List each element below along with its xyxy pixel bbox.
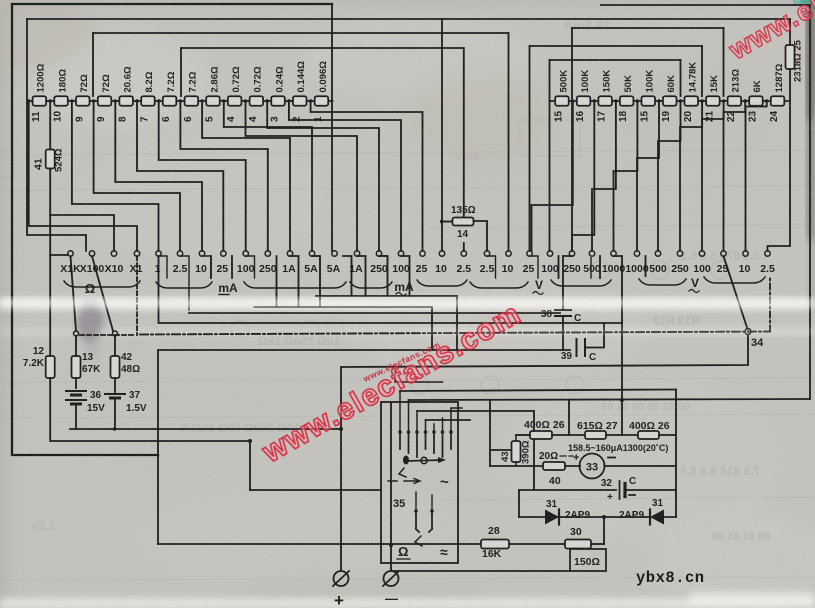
resistor R28 (16K) (481, 540, 509, 549)
junction on shunt chain (135, 99, 138, 102)
switch 35 contact dot (432, 430, 436, 434)
resistor R9 (72Ω) (76, 96, 90, 106)
switch contact X100 (89, 251, 94, 256)
switch contact 100 (547, 251, 552, 256)
wire bus A left down to contact 250V (571, 28, 573, 251)
wire T3 right end down to contact 10V (508, 33, 510, 251)
switch contact 500 (655, 251, 660, 256)
junction on shunt chain (244, 99, 247, 102)
wire contact-1 common bus to meter node (159, 256, 623, 323)
wire divider tap x=724 to contact u100 (702, 101, 724, 251)
wire lower prong riser 2 (431, 495, 433, 511)
wire shunt tap x=115 to contact c10 (115, 101, 202, 251)
switch contact 25 (221, 251, 226, 256)
wire bottom rail to R28 (158, 543, 481, 545)
wire R28 to R30 (509, 543, 565, 545)
capacitor C38 (555, 310, 571, 316)
wire shunt tap x=289 to contact m100 (289, 101, 401, 251)
wire X1K contact to left rail (50, 215, 68, 255)
wire battery 36 to bottom wire (75, 404, 77, 429)
wire bus C right down to chain (680, 60, 682, 96)
stub contact 10mA drop (210, 256, 212, 278)
resistor R18 (50K) (620, 96, 634, 106)
resistor R27 (615Ω) (585, 431, 606, 439)
wire minus jack to rheostat bottom (391, 570, 570, 572)
stub 100V drop (558, 256, 560, 278)
wire divider tap x=594 to contact v250 (572, 101, 594, 251)
rheostat box 150Ω (570, 549, 606, 571)
wire bus T4 (181, 47, 463, 49)
resistor R14 (135Ω) (453, 218, 474, 226)
wire meter feed vertical (489, 400, 491, 466)
diode D31a (2AP9) (545, 510, 559, 525)
wire battery bottom rail (70, 428, 341, 430)
wire R41 step to contact X10 (50, 169, 114, 251)
wire diode tap down to R30 (603, 517, 605, 544)
resistor R30 (150Ω) (565, 540, 591, 549)
wire V~ common bus (189, 312, 560, 314)
resistor R26b (400Ω) (638, 431, 659, 439)
switch contact 1000 (611, 251, 616, 256)
wire wiper34 to battery junction (341, 335, 748, 368)
junction on divider chain (657, 99, 660, 102)
wire diode row (519, 516, 676, 518)
wire prong 6 riser (450, 408, 452, 432)
wire feed from battery line to prongs (395, 366, 443, 382)
junction on divider chain (765, 99, 768, 102)
wire R43 bottom lead (515, 462, 517, 466)
stub 500V drop (599, 256, 601, 278)
resistor R6 (7.2Ω) (163, 96, 177, 106)
wire plus jack riser (340, 367, 342, 571)
wire C38 bottom to box top wire (562, 316, 564, 350)
wire wiper2 to R42 (114, 336, 116, 356)
wire shunt tap x=159 to contact c100 (159, 101, 246, 251)
brace V- group right part (704, 277, 765, 283)
wire rail C down to rectifier input (533, 411, 535, 490)
wire rectifier row right (627, 489, 676, 491)
wire bus A over divider (572, 27, 724, 29)
resistor R6 (7.2Ω) (185, 96, 199, 106)
resistor R20 (14.78K) (685, 96, 699, 106)
drop contact 250mA to bus (276, 256, 278, 307)
wire mA common bus (255, 307, 433, 350)
switch 35 lower contacts (416, 511, 432, 532)
junction on shunt chain (222, 99, 225, 102)
wire prong 2 riser (416, 411, 418, 432)
switch contact 5A (309, 251, 314, 256)
wire lower prong riser 1 (415, 492, 417, 511)
junction on divider chain (722, 99, 725, 102)
switch 35 contact dot (415, 430, 419, 434)
switch contact 10 (439, 251, 444, 256)
wire spur to R43 (490, 449, 511, 451)
watermark elecfans small (361, 339, 442, 384)
wire R42 to battery 37 (114, 378, 116, 392)
resistor R41 (524Ω) (46, 150, 55, 169)
wire shunt tap x=267 to contact m250 (267, 101, 379, 251)
wire left rail down through R12 (49, 255, 51, 356)
stub above contact 2.5mA~ (463, 243, 465, 251)
resistor R3 (0.24Ω) (271, 96, 285, 106)
wiper pivot 1 (74, 331, 79, 336)
wire to 400ohm resistor (516, 434, 530, 436)
drop contact 5A to bus (312, 256, 320, 307)
switch box 35 outline (381, 402, 458, 563)
wire riser contact 10mA~ up to bus T2 (441, 19, 443, 251)
resistor R15 (100K) (642, 96, 656, 106)
junction on divider chain (744, 99, 747, 102)
lower contact dot (414, 509, 418, 513)
wire prong 0 riser (399, 391, 401, 432)
switch contact 100 (243, 251, 248, 256)
wire rail B meter top (409, 399, 811, 400)
switch contact 2.5 (484, 251, 489, 256)
dashed shaft link horizontal (80, 334, 134, 336)
dashed shaft link X1 down (136, 256, 138, 335)
white scan streak (0, 299, 815, 608)
wire shunt tap x=311 to contact m25 (311, 101, 423, 251)
wire bus T3 (93, 32, 509, 34)
watermark elecfans big (256, 297, 527, 470)
resistor R25 (2318Ω) (786, 45, 795, 69)
switch contact 2.5 (765, 251, 770, 256)
wire divider tap x=573 to contact v25b (532, 101, 573, 251)
brace mA group left part (156, 282, 212, 288)
green registration mark (800, 0, 814, 14)
wire T3 left end to chain (92, 33, 94, 96)
resistor R4 (0.72Ω) (250, 96, 264, 106)
wire wiper1 to R13 (75, 336, 77, 356)
meter M33 (580, 454, 605, 479)
junction on divider chain (679, 99, 682, 102)
wire rail C (417, 410, 534, 412)
wiper pivot 34 (745, 329, 751, 335)
junction on shunt chain (266, 99, 269, 102)
junction minus jack / ohm row (389, 543, 393, 547)
watermark fragment top right (723, 0, 815, 66)
resistor R22 (213Ω) (728, 96, 742, 106)
switch 35 contact dot (441, 430, 445, 434)
switch contact 25 (721, 251, 726, 256)
wire shunt tap x=72 to contact c1 (72, 101, 159, 251)
drop contact 5A~ (343, 256, 352, 296)
wire divider tap x=702 to contact u250 (680, 101, 702, 251)
wire rail A (400, 390, 676, 392)
wire R26b to right edge (659, 434, 676, 436)
wire rail D stub (426, 419, 471, 421)
resistor R7 (8.2Ω) (141, 96, 155, 106)
dash-dot rotary shaft line (140, 332, 770, 335)
junction meter top node (620, 398, 624, 402)
wire bus A right down to chain (723, 28, 725, 96)
wire tap to rail B (568, 400, 570, 435)
resistor R13 (67K) (72, 356, 81, 378)
brace mA~ group right part (417, 280, 467, 286)
junction on divider chain (614, 99, 617, 102)
wire prong 5 riser (442, 418, 444, 432)
wire divider tap x=681 to contact u500 (658, 101, 681, 251)
wire voltage divider chain rail (550, 100, 789, 102)
wire shunt tap x=137 to contact c25 (137, 101, 223, 251)
wire T4 left to chain (180, 48, 182, 96)
wire bus C left down to contact 100V (549, 60, 551, 251)
switch contact 250 (265, 251, 270, 256)
wire outer loop: top border left + left border down to bottom bus (12, 4, 332, 455)
wire divider tap x=767 to contact u10 (746, 101, 767, 251)
junction battery rail / plus jack (339, 427, 343, 431)
wire bottom-box top edge to C39 (158, 349, 570, 351)
stub contact 25mA drop (231, 256, 233, 278)
switch contact 25 (420, 251, 425, 256)
junction on divider chain (636, 99, 639, 102)
junction on shunt chain (179, 99, 182, 102)
wire R14 to contact 2.5V (474, 221, 488, 251)
wire between R27 R26b (606, 434, 638, 436)
capacitor C39 (577, 339, 586, 356)
brace ohm group (64, 281, 140, 287)
wire to resistor 25 (789, 19, 791, 44)
wire R30 right (591, 543, 604, 545)
wire shunt tap x=94 to contact c2.5 (94, 101, 180, 251)
lower contact dot 2 (430, 509, 434, 513)
junction diode center tap (602, 515, 606, 519)
switch contact 25 (527, 251, 532, 256)
switch contact 10 (506, 251, 511, 256)
dash-dot shaft vertical right (769, 276, 771, 332)
wire bus B over divider (530, 45, 703, 47)
switch contact 100 (398, 251, 403, 256)
wire AC feed into box 35 (250, 489, 381, 491)
resistor R9 (72Ω) (98, 96, 112, 106)
resistor R15 (500K) (555, 96, 569, 106)
resistor R24 (1287Ω) (771, 96, 785, 106)
brace V~ group right part (551, 280, 611, 286)
ghost bleedthrough (30, 18, 770, 543)
switch contact 100 (699, 251, 704, 256)
drop contact 1A~ (357, 256, 366, 296)
junction branch to AC switch (248, 439, 252, 443)
switch contact 250 (376, 251, 381, 256)
wire prong 4 riser (433, 424, 435, 432)
resistor R11 (1200Ω) (33, 96, 47, 106)
wire left shunt chain rail (29, 100, 333, 102)
junction on divider chain (571, 99, 574, 102)
wire meter row left (490, 465, 543, 467)
wire shunt tap x=180 to contact c250 (180, 101, 267, 251)
svg-text:ybx8.cn: ybx8.cn (636, 569, 705, 587)
wire divider tap x=637 to contact v1000 (614, 101, 638, 251)
switch contact 1A (354, 251, 359, 256)
switch contact X1K (68, 251, 73, 256)
wire minus jack riser (390, 402, 392, 571)
wire top right bus down right edge (601, 5, 810, 399)
wire bus B left down to contact 25V (529, 46, 531, 251)
resistor R16 (100K) (577, 96, 591, 106)
wire riser to R14 (442, 221, 453, 223)
switch 35 contact dot (407, 430, 411, 434)
wiper arm X100 range (92, 256, 113, 331)
wire prong feed stub (451, 407, 462, 409)
resistor R23 (6K) (749, 96, 763, 106)
resistor R2 (0.144Ω) (293, 96, 307, 106)
switch contact 250 (677, 251, 682, 256)
stub 1000V- drop (645, 256, 647, 276)
resistor R40 (20Ω) (543, 462, 565, 470)
switch contact X10 (111, 251, 116, 256)
paper mottling (0, 0, 1, 1)
wire divider tap x=745 to contact u25 (724, 101, 746, 251)
junction battery 37 on rail (113, 427, 117, 431)
switch contact 2.5 (177, 251, 182, 256)
wire R25 down to contact 2.5V- (768, 70, 791, 251)
scan grain (0, 0, 1, 1)
switch contact 5A (332, 251, 337, 256)
wire shunt tap x=29 to contact X1 (29, 101, 137, 251)
wire bus T2 full width (27, 18, 790, 20)
junction on shunt chain (309, 99, 312, 102)
capacitor C32 (619, 481, 621, 499)
wire prong 3 riser (425, 420, 427, 432)
wire divider tap x=659 to contact u1000 (637, 101, 659, 251)
diode D31b (2AP9) (650, 510, 664, 525)
switch contact 1A (287, 251, 292, 256)
wire riser R1 end to contact 5A (331, 4, 333, 251)
switch contact 2.5 (461, 251, 466, 256)
wire down to diode row (518, 490, 520, 517)
brace V~ group left part (470, 282, 528, 288)
group separator marks (159, 256, 255, 310)
wire shunt tap x=246 to contact m1A (246, 101, 358, 251)
resistor R17 (150K) (598, 96, 612, 106)
wire bus B right down to chain (701, 46, 703, 96)
switch contact 250 (569, 251, 574, 256)
wire battery 37 to bottom wire (114, 398, 116, 429)
junction on shunt chain (201, 99, 204, 102)
resistor R19 (60K) (663, 96, 677, 106)
wire R12 down along to AC switch feed (50, 378, 250, 490)
jack minus terminal (384, 571, 399, 586)
resistor R42 (48Ω) (111, 356, 120, 378)
brace mA~ group left part (350, 282, 392, 288)
switch 35 contact dot (424, 430, 428, 434)
wire between R26a R27 (552, 434, 585, 436)
drop 250V to capacitor 38 (563, 256, 572, 309)
junction on shunt chain (92, 99, 95, 102)
switch contact 10 (743, 251, 748, 256)
wire meter to right edge (605, 465, 677, 467)
wiper arm 34 (724, 256, 748, 329)
resistor R8 (20.6Ω) (119, 96, 132, 106)
wire prong 1 riser (408, 400, 410, 432)
brace mA group right part (244, 282, 346, 288)
wire T2 left end down to contact X100 (27, 19, 86, 251)
jack plus terminal (334, 571, 349, 586)
white fold overlay (0, 300, 815, 334)
wire R43 top lead (515, 435, 517, 441)
resistor R12 (7.2K) (46, 356, 55, 378)
wire R13 to battery 36 (75, 378, 77, 388)
wire meter network right edge (675, 390, 677, 518)
wire shunt tap x=202 to contact c1A (202, 101, 290, 251)
switch 35 contact dot (398, 430, 402, 434)
drop contact 1A to bus (290, 256, 299, 307)
switch 35 contact dot (449, 430, 453, 434)
resistor R1 (0.096Ω) (315, 96, 329, 106)
junction on shunt chain (27, 99, 30, 102)
junction on shunt chain (49, 99, 52, 102)
switch contact 500 (589, 251, 594, 256)
page edge shadow (806, 0, 815, 310)
drop 100mA~ (401, 256, 410, 296)
junction on divider chain (700, 99, 703, 102)
brace V- group left part (639, 279, 686, 285)
resistor R4 (0.72Ω) (228, 96, 242, 106)
junction R14 tap (440, 220, 444, 224)
switch contact 1000 (634, 251, 639, 256)
wire R40 to meter (565, 465, 580, 467)
wire C39 right lead up to bus (585, 323, 604, 348)
wire shunt tap x=224 to contact c5A (224, 101, 312, 251)
wire rectifier row left (519, 489, 616, 491)
junction on divider chain (593, 99, 596, 102)
switch 35 upper wiper (406, 460, 443, 461)
switch contact 1 (156, 251, 161, 256)
wire tap to resistor 41 (49, 101, 51, 150)
resistor R5 (2.86Ω) (206, 96, 220, 106)
smudge (74, 300, 105, 357)
switch contact 10 (199, 251, 204, 256)
resistor R26a (400Ω) (530, 431, 552, 439)
switch contact X1 (134, 251, 139, 256)
junction on shunt chain (157, 99, 160, 102)
wire bottom-box left edge (157, 350, 159, 544)
drop 250mA~ (379, 256, 388, 296)
resistor R10 (180Ω) (54, 96, 68, 106)
wire divider tap x=616 to contact v500 (592, 101, 616, 251)
junction on shunt chain (70, 99, 73, 102)
wiper arm X1K range (71, 256, 77, 331)
battery B37 (1.5V) (105, 394, 125, 398)
switch 35 motion arrows (388, 479, 420, 484)
drop 1000V to meter node vertical (614, 256, 623, 435)
switch 35 upper contacts (400, 432, 451, 457)
resistor R43 (390Ω) (512, 441, 521, 462)
junction on shunt chain (287, 99, 290, 102)
battery B36 (15V) (66, 391, 86, 404)
resistor R21 (15K) (706, 96, 720, 106)
wiper pivot 2 (113, 331, 118, 336)
wire T4 right down to R14 (463, 48, 465, 218)
junction on shunt chain (114, 99, 117, 102)
wire bus C over divider (550, 59, 681, 61)
wire mA~ common bus (316, 296, 457, 350)
